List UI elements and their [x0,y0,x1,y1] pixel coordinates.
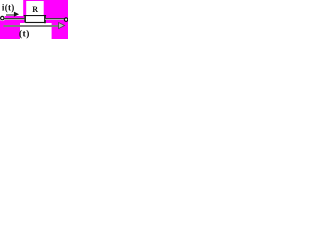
resistor R1 body (white fill) [24,15,45,23]
left terminal circle [1,16,4,19]
white label patch behind i(t) [0,0,23,16]
resistor R1 left border [24,15,26,23]
resistor R1 right border [44,15,46,23]
current arrow shaft [6,14,14,16]
wire right segment [45,18,65,19]
resistor R1 bottom border [25,22,45,23]
wire left segment [4,18,25,19]
left terminal white halo [0,15,5,21]
svg-text:i(t): i(t) [2,3,15,13]
resistor R1 top border [24,15,46,16]
white label patch behind R [26,1,44,15]
gray flow arrow shaft [4,25,59,27]
gray flow arrow head [59,23,65,29]
right terminal circle [64,18,67,21]
white label patch behind v(t) [20,23,52,39]
svg-text:(t): (t) [19,29,30,40]
svg-text:R: R [32,5,38,14]
background (transparent key magenta) [0,0,68,39]
current arrow head [14,12,19,17]
